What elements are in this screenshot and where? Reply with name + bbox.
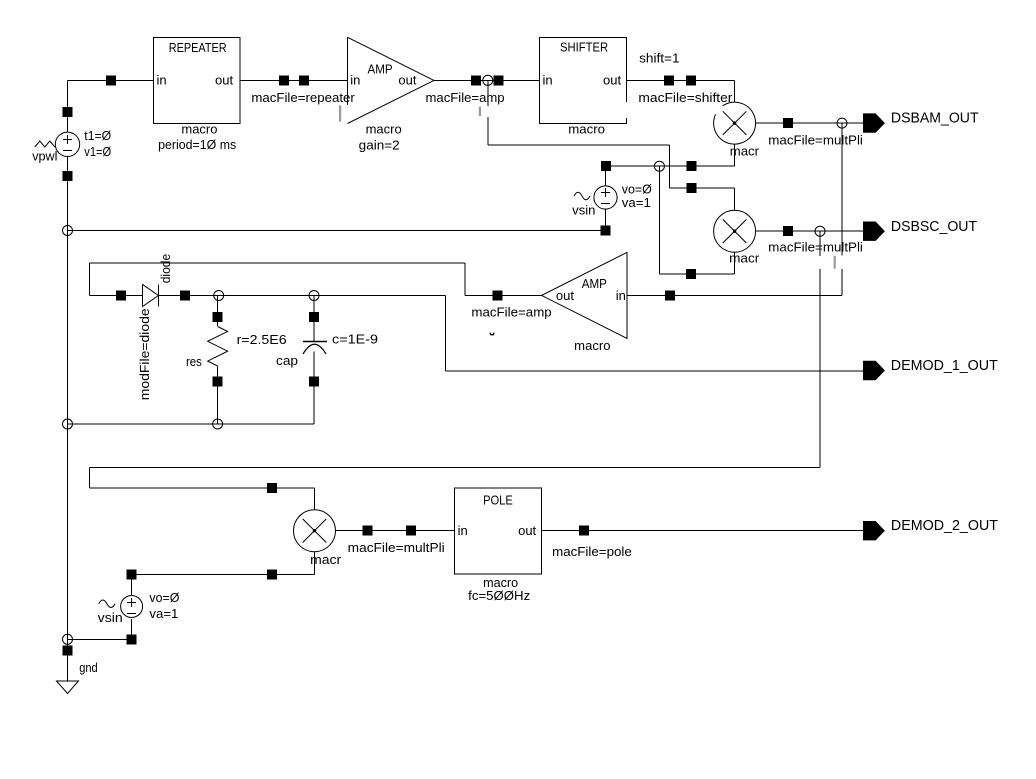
svg-text:period=1Ø ms: period=1Ø ms bbox=[158, 137, 237, 152]
svg-text:AMP: AMP bbox=[582, 277, 607, 291]
svg-text:macr: macr bbox=[310, 552, 342, 567]
svg-text:fc=5ØØHz: fc=5ØØHz bbox=[468, 588, 530, 603]
svg-text:DSBSC_OUT: DSBSC_OUT bbox=[891, 218, 977, 235]
svg-text:diode: diode bbox=[159, 254, 173, 284]
svg-text:vsin: vsin bbox=[98, 610, 123, 625]
svg-text:macro: macro bbox=[366, 122, 402, 137]
svg-text:in: in bbox=[543, 72, 553, 87]
svg-text:macFile=amp: macFile=amp bbox=[426, 90, 505, 105]
svg-text:macFile=multPli: macFile=multPli bbox=[768, 239, 863, 254]
svg-text:in: in bbox=[350, 72, 360, 87]
svg-text:shift=1: shift=1 bbox=[639, 51, 680, 66]
svg-text:out: out bbox=[215, 72, 233, 87]
svg-text:AMP: AMP bbox=[368, 63, 393, 77]
svg-text:out: out bbox=[556, 288, 574, 303]
svg-text:out: out bbox=[603, 72, 621, 87]
svg-text:res: res bbox=[186, 354, 202, 369]
svg-text:in: in bbox=[458, 523, 468, 538]
svg-text:macFile=repeater: macFile=repeater bbox=[251, 90, 355, 105]
svg-text:vo=Ø: vo=Ø bbox=[149, 590, 179, 605]
svg-text:vsin: vsin bbox=[572, 203, 595, 218]
svg-text:macro: macro bbox=[181, 122, 217, 137]
svg-text:va=1: va=1 bbox=[622, 195, 651, 210]
svg-text:modFile=diode: modFile=diode bbox=[138, 308, 152, 400]
svg-text:macFile=multPli: macFile=multPli bbox=[768, 133, 863, 148]
svg-text:DSBAM_OUT: DSBAM_OUT bbox=[891, 109, 979, 126]
svg-text:out: out bbox=[518, 523, 536, 538]
svg-text:gnd: gnd bbox=[79, 660, 98, 675]
svg-text:c=1E-9: c=1E-9 bbox=[332, 331, 378, 346]
svg-text:macFile=multPli: macFile=multPli bbox=[348, 540, 445, 555]
svg-text:macro: macro bbox=[574, 338, 610, 353]
svg-text:REPEATER: REPEATER bbox=[169, 41, 227, 55]
svg-text:in: in bbox=[157, 72, 167, 87]
svg-text:vpwl: vpwl bbox=[32, 148, 57, 163]
svg-text:in: in bbox=[616, 288, 626, 303]
svg-text:macFile=pole: macFile=pole bbox=[552, 544, 632, 559]
svg-text:r=2.5E6: r=2.5E6 bbox=[237, 332, 287, 347]
svg-text:macFile=shifter: macFile=shifter bbox=[638, 90, 733, 105]
svg-text:SHIFTER: SHIFTER bbox=[560, 41, 608, 55]
svg-text:v1=Ø: v1=Ø bbox=[84, 144, 111, 159]
svg-text:DEMOD_2_OUT: DEMOD_2_OUT bbox=[891, 517, 998, 534]
svg-text:POLE: POLE bbox=[483, 494, 513, 508]
svg-text:va=1: va=1 bbox=[149, 606, 178, 621]
svg-text:macro: macro bbox=[568, 122, 605, 137]
svg-text:cap: cap bbox=[276, 353, 298, 368]
svg-text:macFile=amp: macFile=amp bbox=[471, 305, 551, 320]
svg-text:DEMOD_1_OUT: DEMOD_1_OUT bbox=[891, 357, 998, 374]
svg-text:macr: macr bbox=[730, 144, 760, 159]
svg-text:gain=2: gain=2 bbox=[359, 138, 400, 153]
svg-text:macr: macr bbox=[729, 251, 760, 266]
svg-text:out: out bbox=[398, 72, 416, 87]
svg-text:t1=Ø: t1=Ø bbox=[84, 128, 111, 143]
